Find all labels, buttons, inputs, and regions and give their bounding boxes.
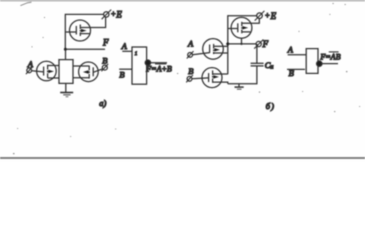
wire: left drain/source column <box>58 59 60 83</box>
svg-text:Е: Е <box>115 9 122 19</box>
wire: bottom source bar to ground tap <box>58 82 73 84</box>
input wire B (NOR) <box>119 68 132 70</box>
wire: drain lead of VT3 to +E <box>90 17 105 27</box>
wire: output node F horizontal (circuit b) <box>228 43 256 45</box>
svg-text:В: В <box>119 69 124 79</box>
wire: drain lead of VT6 to +E <box>252 19 260 24</box>
svg-text:F: F <box>262 39 269 49</box>
wire: drain bus bar of VT1,VT2 <box>58 59 73 61</box>
wire: source of VT6 down to node F <box>241 38 243 44</box>
transistor VT2 input B (circuit a) <box>73 62 102 82</box>
input wire B (NAND) <box>287 68 305 70</box>
page bottom rule line <box>0 157 365 159</box>
wire: VT5 source corner to bottom rail <box>213 82 228 84</box>
inversion bubble (NOR output) <box>145 60 150 65</box>
transistor VT5 input B (circuit b) <box>192 68 228 88</box>
capacitor Cn load <box>251 44 264 84</box>
NOR gate body (GOST rectangle) <box>132 47 147 84</box>
svg-text:А: А <box>187 38 194 48</box>
+E supply terminal (circuit b) <box>255 11 265 21</box>
transistor load VT6 (circuit b) <box>228 17 252 38</box>
svg-text:F=А+В: F=А+В <box>145 64 172 73</box>
wire: output node F horizontal <box>65 48 105 50</box>
svg-text:а): а) <box>99 98 106 108</box>
output formula F=A+B with overline <box>145 64 172 74</box>
transistor VT4 input A (circuit b) <box>192 39 227 60</box>
junction dot at VT6 source <box>240 43 242 45</box>
ground symbol (circuit a) <box>60 93 73 97</box>
svg-text:А: А <box>27 59 34 69</box>
output wire (NAND) <box>322 63 338 65</box>
+E supply terminal (circuit a) <box>102 10 112 20</box>
svg-text:А: А <box>287 45 294 55</box>
page top edge line <box>0 0 365 2</box>
node F junction dot (circuit a) <box>64 48 67 51</box>
input wire A (NAND) <box>288 54 307 56</box>
svg-text:А: А <box>121 41 128 51</box>
input terminal A (circuit a) <box>26 67 33 75</box>
svg-text:В: В <box>102 56 107 66</box>
wire: top rail from gate column to +E terminal <box>65 13 103 15</box>
wire: left vertical gate/output column (circuit b) <box>227 15 229 74</box>
svg-text:1: 1 <box>135 52 138 57</box>
svg-text:+: + <box>111 10 116 19</box>
ground symbol (circuit b) <box>235 84 244 90</box>
svg-text:+: + <box>265 11 270 20</box>
svg-text:В: В <box>188 66 193 76</box>
output wire (NOR) <box>151 62 167 64</box>
input wire A (NOR) <box>122 50 132 52</box>
svg-text:Е: Е <box>270 11 277 21</box>
output formula F=AB with overline <box>319 52 340 61</box>
svg-text:н: н <box>270 65 273 71</box>
output terminal F (circuit b) <box>254 40 263 49</box>
transistor VT1 input A (circuit a) <box>32 61 59 81</box>
transistor load VT3 (circuit a) <box>65 20 90 41</box>
wire: top rail from gate column to +E (circuit b) <box>228 15 257 17</box>
svg-text:F=АВ: F=АВ <box>319 52 340 61</box>
stray specks <box>13 3 360 154</box>
svg-text:б): б) <box>266 101 274 111</box>
input terminal A (circuit b) <box>187 51 194 58</box>
svg-text:F: F <box>102 37 109 47</box>
input terminal B (circuit b) <box>186 75 193 82</box>
wire: right drain/source column <box>72 59 74 83</box>
input terminal B (circuit a) <box>101 64 108 71</box>
svg-text:В: В <box>289 68 294 78</box>
stray pen mark top-left <box>20 2 31 5</box>
inversion bubble (NAND output) <box>317 61 322 66</box>
input label B with overline (NAND) <box>289 68 295 78</box>
NAND gate body (GOST rectangle) <box>306 49 318 74</box>
wire: F node down to drain bus <box>65 49 67 59</box>
wire: ground stem (circuit a) <box>65 83 67 92</box>
wire: left vertical from top rail down to output node F <box>64 14 66 50</box>
node F junction dot (circuit b) <box>226 42 229 45</box>
wire: bottom rail (circuit b) <box>228 83 258 85</box>
